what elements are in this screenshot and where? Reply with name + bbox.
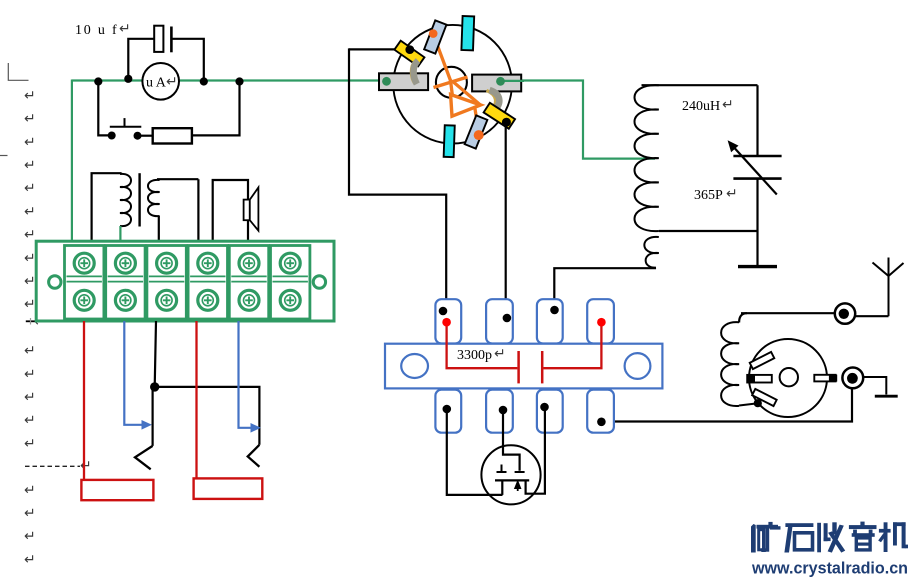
svg-text:3300p: 3300p [457, 348, 492, 363]
red node dot tab4 [597, 318, 606, 327]
cap frame top tab4 [587, 299, 614, 343]
svg-text:↵: ↵ [24, 481, 36, 497]
switch lever 1 [135, 446, 153, 469]
svg-text:↵: ↵ [726, 185, 738, 201]
gray hook left [411, 62, 414, 84]
transformer T1 secondary winding [148, 180, 160, 216]
gray hook right [487, 91, 496, 111]
cap frame bottom tab3 [537, 390, 563, 433]
terminal block mounting holes [49, 276, 61, 288]
pushbutton switch S1 contact dots [108, 132, 116, 140]
pushbutton stem [124, 118, 126, 127]
transistor channel [495, 479, 529, 481]
green dot right contact [496, 77, 505, 86]
paragraph marks column [24, 87, 36, 567]
svg-text:↵: ↵ [24, 110, 36, 126]
switch lever 2 [248, 445, 260, 467]
svg-text:↵: ↵ [24, 180, 36, 196]
svg-text:↵: ↵ [24, 365, 36, 381]
wire green vertical to terminal block [71, 80, 73, 244]
capacitor C1 right plate [170, 27, 173, 53]
black node dot bottom tab1 [443, 405, 452, 414]
wire green over right contact [502, 80, 524, 82]
node dot cap right [200, 77, 208, 85]
cap frame top tab3 [537, 299, 563, 343]
wire tank right vertical upper [756, 85, 758, 156]
cap frame top tab1 [435, 299, 461, 343]
black dot lower-left contact [754, 399, 762, 407]
inductor L1 lower winding [644, 237, 658, 268]
wire W0 to upper-left detector contact [349, 48, 403, 50]
contact left gray bar [379, 73, 428, 90]
svg-text:↵: ↵ [24, 273, 36, 289]
svg-text:↵: ↵ [24, 435, 36, 451]
svg-text:10 u f: 10 u f [75, 23, 118, 38]
contact lower-left [752, 389, 777, 406]
svg-text:↵: ↵ [24, 389, 36, 405]
terminal block TB1 outer [36, 241, 334, 321]
black dot upper-left contact [405, 45, 414, 54]
transformer T1 primary winding [120, 174, 131, 226]
wire antenna feed horizontal [741, 312, 845, 314]
terminal section 2 [106, 246, 145, 320]
wire coil bottom to contact [739, 404, 756, 406]
variable capacitor C2 bottom plate [733, 177, 781, 180]
wire W3 tab3 to coil bottom [554, 268, 656, 310]
svg-text:↵: ↵ [24, 203, 36, 219]
diode D1 cathode bar [434, 77, 468, 88]
orange dot lower [474, 130, 484, 140]
antenna jack J1 [835, 303, 855, 323]
transformer T1 core [138, 173, 140, 226]
terminal section 1 [65, 246, 104, 320]
wire red terminal4 to jack2 [195, 321, 197, 478]
page corner mark top-left [8, 63, 28, 80]
variable capacitor C2 365P top plate [733, 155, 781, 158]
wire tab3 to drain [526, 407, 545, 494]
contact lower-right yellow [484, 103, 515, 129]
svg-text:↵: ↵ [166, 73, 178, 89]
logo char shou [817, 523, 821, 553]
transformer T1 primary left wire [92, 173, 122, 245]
logo crystalradio [751, 522, 908, 553]
transistor source lead [501, 480, 503, 495]
svg-text:365P: 365P [694, 188, 723, 203]
speaker SP1 symbol [244, 200, 250, 221]
svg-text:↵: ↵ [494, 345, 506, 361]
node dot resistor-branch right [235, 77, 243, 85]
cap frame bottom tab1 [435, 390, 461, 433]
contact upper-left yellow [394, 41, 424, 67]
wire blue arrow 2 [239, 321, 254, 428]
logo char yin [860, 522, 864, 526]
cap frame top tab2 [486, 299, 513, 343]
capacitor C3 left plate [517, 351, 520, 383]
mounting hole right [625, 353, 651, 379]
wire cap right [171, 39, 203, 81]
black node dot top tab1 [439, 307, 448, 316]
node dot cap left [124, 75, 132, 83]
svg-text:↵: ↵ [24, 157, 36, 173]
svg-text:↵: ↵ [24, 296, 36, 312]
variable capacitor arrow [732, 145, 777, 194]
orange dot upper [429, 29, 438, 38]
green dot left contact [382, 77, 391, 86]
red node dot tab1 [442, 318, 451, 327]
meter U1 uA [142, 63, 179, 100]
wire tab1 to source [447, 409, 503, 495]
black node dot bottom tab3 [540, 403, 549, 412]
contact upper blue [424, 20, 446, 53]
cap frame bottom tab2 [486, 390, 513, 433]
diode D1 anode line [433, 34, 451, 81]
terminal section 6 [271, 246, 310, 320]
svg-text:240uH: 240uH [682, 99, 720, 114]
junction dot [150, 382, 159, 391]
logo char ji [879, 529, 891, 533]
terminal section 5 [229, 246, 268, 320]
svg-text:↵: ↵ [80, 457, 92, 473]
capacitor C3 red wiring right [543, 322, 601, 368]
wire blue arrow 1 [124, 321, 144, 425]
svg-text:↵: ↵ [24, 551, 36, 567]
earth jack J2 [842, 368, 863, 389]
wire cap left [128, 39, 154, 81]
band switch shaft [780, 368, 798, 386]
svg-text:↵: ↵ [24, 412, 36, 428]
variable capacitor body plate [385, 344, 662, 389]
logo char shi [785, 523, 813, 527]
svg-text:↵: ↵ [119, 20, 131, 36]
svg-text:↵: ↵ [24, 528, 36, 544]
svg-text:↵: ↵ [722, 96, 734, 112]
inductor L1 240uH winding [635, 85, 659, 231]
transformer T1 secondary top wire [157, 178, 198, 180]
capacitor C3 right plate [541, 351, 544, 383]
capacitor C1 10uF plate (hollow) [154, 26, 163, 52]
wire W1 detector to cap tab1 [349, 48, 446, 311]
detector rotary switch SW1 body [393, 25, 512, 144]
terminal section 4 [188, 246, 227, 320]
resistor R1 [153, 128, 192, 143]
capacitor C3 3300p red wiring left [447, 322, 518, 368]
cap frame bottom tab4 [587, 390, 614, 433]
wire jack bottom to tab4 [603, 387, 852, 422]
wire resistor branch left vertical [98, 82, 108, 136]
dashed leader line [25, 465, 80, 467]
contact bottom cyan [444, 125, 455, 157]
svg-text:↵: ↵ [24, 87, 36, 103]
wire junction to right switch [155, 387, 260, 445]
wire red terminal1 to jack1 [83, 321, 85, 480]
ground bar tank [738, 265, 777, 268]
pushbutton bar [110, 126, 142, 128]
terminal section 3 [147, 246, 186, 320]
wire green from rotary right to coil tap [518, 81, 655, 159]
logo char kuang [751, 524, 756, 553]
contact top cyan [461, 16, 474, 50]
wire resistor right vertical [192, 82, 240, 136]
transistor Q1 body [481, 445, 540, 504]
black node dot top tab2 [503, 314, 512, 323]
contact right gray bar [472, 75, 521, 92]
transistor gate bars [497, 471, 507, 473]
headphone jack block 2 [194, 478, 263, 499]
wire tank right vertical lower [756, 179, 758, 265]
black node dot bottom tab4 [597, 418, 606, 427]
wire terminal3 down [153, 321, 156, 446]
wire tab2 to gate [503, 410, 520, 471]
svg-text:↵: ↵ [24, 342, 36, 358]
diode D1 triangle [451, 95, 481, 117]
ground bar small [875, 395, 898, 398]
band switch SW2 body [749, 339, 827, 417]
coupling coil L2 [721, 322, 739, 406]
black node dot bottom tab2 [499, 406, 508, 415]
svg-text:↵: ↵ [24, 505, 36, 521]
svg-text:↵: ↵ [24, 249, 36, 265]
svg-text:↵: ↵ [24, 226, 36, 242]
diode D1 lower lead [475, 108, 479, 135]
contact left with lug [747, 375, 772, 383]
left edge tick [0, 155, 8, 157]
wire jack to ground [863, 377, 886, 395]
contact upper-left [750, 352, 775, 369]
object anchor cross [26, 313, 46, 329]
black node dot top tab3 [550, 306, 559, 315]
wire T1 secondary bottom to terminal 3 [158, 216, 160, 245]
wire to resistor [138, 135, 153, 137]
wire green main node line [72, 79, 388, 81]
svg-text:u A: u A [146, 76, 167, 91]
mounting hole left [401, 354, 428, 378]
contact right with lug [814, 375, 835, 382]
wire coil lower tap [659, 230, 758, 232]
wire jack to antenna [853, 315, 889, 317]
node dot resistor-branch left [94, 77, 102, 85]
contact lower blue [465, 115, 488, 148]
transistor arrow [517, 484, 519, 492]
antenna symbol [873, 258, 904, 317]
wire to terminal 4 [197, 179, 199, 245]
black dot lower-right contact [502, 118, 511, 127]
svg-text:↵: ↵ [24, 133, 36, 149]
svg-text:www.crystalradio.cn: www.crystalradio.cn [751, 560, 908, 578]
wire green T1 secondary bottom to terminal 2 [119, 226, 121, 245]
wire coil top to tank top [642, 84, 758, 86]
wire coupling coil top bend [739, 313, 747, 322]
detector shaft circle [436, 67, 467, 98]
wire W2 detector to cap tab2 [505, 126, 507, 318]
speaker SP1 circuit wires [213, 180, 248, 245]
headphone jack block 1 [81, 480, 153, 500]
